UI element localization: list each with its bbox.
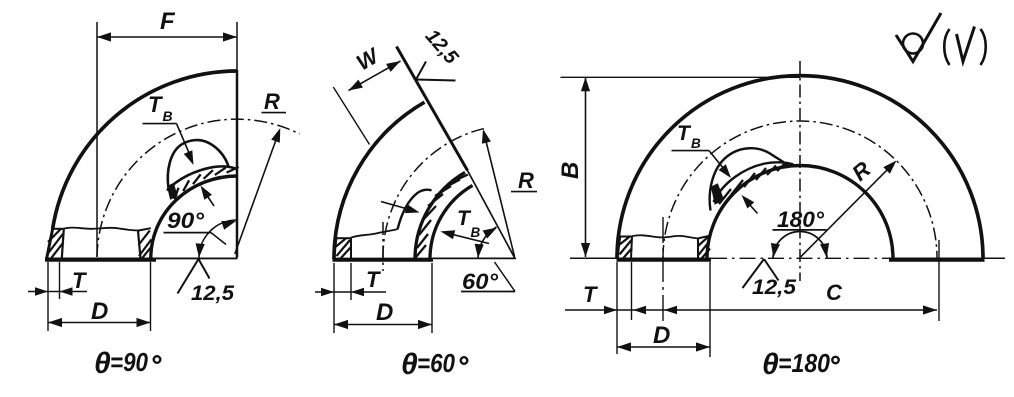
svg-text:B: B (471, 225, 481, 240)
fig3 label TB with shelf (672, 122, 710, 151)
fig3 centre-line arc (dash-dot) (663, 121, 937, 258)
fig1 label D (91, 298, 108, 325)
fig2 outer arc of elbow (334, 102, 425, 259)
fig3 base centre line (dash-dot) (711, 257, 890, 259)
fig1 dimension F line (97, 32, 237, 41)
fig3 extension lines below (617, 217, 939, 357)
svg-text:B: B (163, 108, 173, 124)
fig3 base line right thin (984, 257, 1005, 259)
fig3 label B rotated (557, 162, 584, 179)
fig2 dimension W line (349, 61, 401, 91)
fig3 TB leader arrow (lower) (742, 195, 758, 214)
fig3 outer arc (half torus) (617, 76, 983, 259)
fig2 label W (352, 42, 384, 75)
fig2 centre-line arc (dash-dot) (383, 129, 484, 259)
svg-text:12,5: 12,5 (752, 276, 796, 299)
fig2 TB leader arrow (left) (381, 202, 420, 214)
fig2 label D (376, 299, 393, 326)
fig1 label TB with shelf (143, 92, 177, 124)
fig1 upper end opening rim (dome) (168, 140, 229, 188)
fig2 centre line of lower pipe end (dash-dot) (382, 222, 384, 271)
fig3 roughness mark 12,5 on end face (743, 259, 797, 299)
svg-text:12,5: 12,5 (191, 282, 234, 305)
svg-text:D: D (653, 322, 670, 349)
fig1 label 90deg with shelf (164, 208, 227, 245)
fig3 label D (653, 322, 670, 349)
svg-text:R: R (518, 168, 534, 193)
svg-text:T: T (366, 267, 381, 292)
fig3 upper end opening rim (dome) (710, 148, 789, 210)
fig1 wavy inner-bore line of lower end (64, 228, 138, 231)
fig3 label R rotated (847, 156, 875, 185)
fig2 roughness mark 12,5 on end face (416, 62, 456, 81)
svg-text:B: B (557, 162, 584, 179)
fig2 wavy inner-bore line of lower end (351, 229, 398, 237)
fig2 lower end left wall (section) (336, 238, 351, 259)
svg-text:=180: =180 (778, 348, 830, 378)
fig3 right end face thick line (889, 258, 985, 262)
svg-text:θ: θ (401, 348, 418, 381)
fig2 angle arc 60deg (475, 227, 497, 259)
fig3 base line left thin (570, 257, 618, 259)
fig2 inner arc of elbow (crescent left boundary) (415, 172, 465, 259)
fig2 label T (366, 267, 381, 292)
fig1 dimension T line (28, 287, 87, 295)
svg-text:90°: 90° (167, 208, 204, 233)
fig3 dimension T and C line (565, 305, 937, 314)
fig2 dimension T line (315, 288, 386, 296)
fig1 label R with shelf (262, 89, 287, 114)
fig3 dimension D line (617, 342, 710, 351)
fig1 angle arc 90deg (196, 220, 237, 258)
fig2 hatching of bevel wall crescent (416, 175, 468, 258)
svg-text:R: R (264, 89, 280, 114)
svg-text:C: C (826, 280, 843, 305)
fig1 hatching of bevel wall crescent (174, 167, 238, 199)
fig3 bevel-wall outer arc (crescent boundary) (714, 162, 794, 202)
svg-text:B: B (691, 136, 701, 151)
svg-text:60°: 60° (462, 269, 498, 294)
fig1 TB leader arrow (upper) (177, 124, 194, 165)
fig1 lower end left wall (section) (48, 229, 64, 259)
fig1 lower end right wall (section) (138, 228, 152, 259)
svg-text:=60: =60 (417, 348, 455, 378)
fig3 B extension line (top) (561, 76, 801, 78)
svg-text:θ: θ (94, 347, 111, 380)
fig3 hatching of bevel wall crescent (719, 164, 785, 205)
fig1 label T (72, 268, 87, 293)
fig1 bevel-wall upper arc (crescent boundary) (167, 166, 237, 190)
fig3 label C (826, 280, 843, 305)
svg-text:θ: θ (762, 348, 779, 381)
fig2 end-face extension to vertex (thin) (468, 171, 516, 259)
fig1 inner arc of elbow (throat silhouette) (151, 176, 237, 259)
fig3 TB leader arrow (upper) (709, 151, 731, 178)
fig2 label 60deg with shelf (461, 262, 515, 294)
svg-text:T: T (583, 282, 598, 307)
fig1 thin base line to corner (155, 257, 238, 259)
fig3 left end face thick line (617, 258, 712, 262)
svg-text:D: D (91, 298, 108, 325)
fig2 W extension line (333, 87, 369, 145)
roughness symbol (check) in parentheses (944, 27, 986, 66)
fig1 centre line of lower pipe end / F extension line (96, 22, 98, 257)
svg-text:T: T (677, 122, 692, 145)
fig2 lower end face thick line (333, 258, 434, 262)
fig1 radius R leader (235, 128, 280, 254)
fig3 angle arc 180deg (771, 232, 829, 259)
svg-text:F: F (160, 8, 176, 35)
fig2 upper end opening rim (dome) (398, 190, 432, 230)
fig3 wavy inner-bore line of left end (632, 235, 698, 238)
fig3 inner arc (half torus bore) (707, 166, 893, 259)
fig1 right end-face plane line (vertical) (236, 22, 238, 258)
fig1 lower end face thick line (45, 258, 156, 262)
fig2 end-face line (thick part) (397, 47, 468, 171)
fig2 label R with shelf (511, 168, 537, 193)
fig3 label 180deg with shelf (773, 207, 827, 232)
fig2 crescent right boundary arc (430, 185, 473, 259)
fig1 label F (160, 8, 176, 35)
fig3 left end right wall (section) (698, 236, 710, 259)
fig2 left edge of lower end (334, 238, 337, 260)
roughness symbol check with circle (896, 13, 941, 62)
svg-text:T: T (72, 268, 87, 293)
fig3 radius R leader (801, 161, 897, 258)
fig3 vertical centre line (dash-dot) (799, 61, 801, 281)
fig1 dimension D line (48, 318, 151, 327)
fig3 dimension B line (581, 77, 590, 257)
fig3 caption theta=180 (762, 348, 839, 381)
svg-text:=90: =90 (110, 347, 148, 377)
fig1 left edge of lower end (outer wall silhouette) (47, 229, 53, 259)
fig2 thin base line to vertex (433, 257, 516, 259)
fig1 extension lines for T and D (48, 262, 151, 331)
fig1 dark wedge at crescent left end (168, 184, 178, 200)
fig1 caption theta=90 (94, 347, 160, 380)
fig2 radius R leader (482, 129, 515, 257)
fig1 outer arc of elbow (53, 71, 237, 229)
svg-text:180°: 180° (777, 207, 824, 232)
fig2 label TB (457, 207, 481, 240)
fig1 centre-line arc (dash-dot) (97, 119, 300, 257)
fig3 label T (583, 282, 598, 307)
fig1 TB leader arrow (lower) (201, 186, 215, 207)
fig3 dark wedge at crescent left end (712, 184, 724, 204)
fig1 roughness mark 12,5 on end face (178, 259, 235, 305)
fig2 rotated text 12,5 (421, 25, 463, 69)
fig3 left end left wall (section) (617, 237, 632, 259)
fig2 caption theta=60 (401, 348, 467, 381)
fig2 TB leader arrow (right) (441, 230, 490, 243)
fig2 dimension D line (334, 320, 432, 329)
fig2 extension lines for T and D (334, 263, 432, 333)
svg-text:D: D (376, 299, 393, 326)
svg-text:T: T (148, 92, 163, 117)
